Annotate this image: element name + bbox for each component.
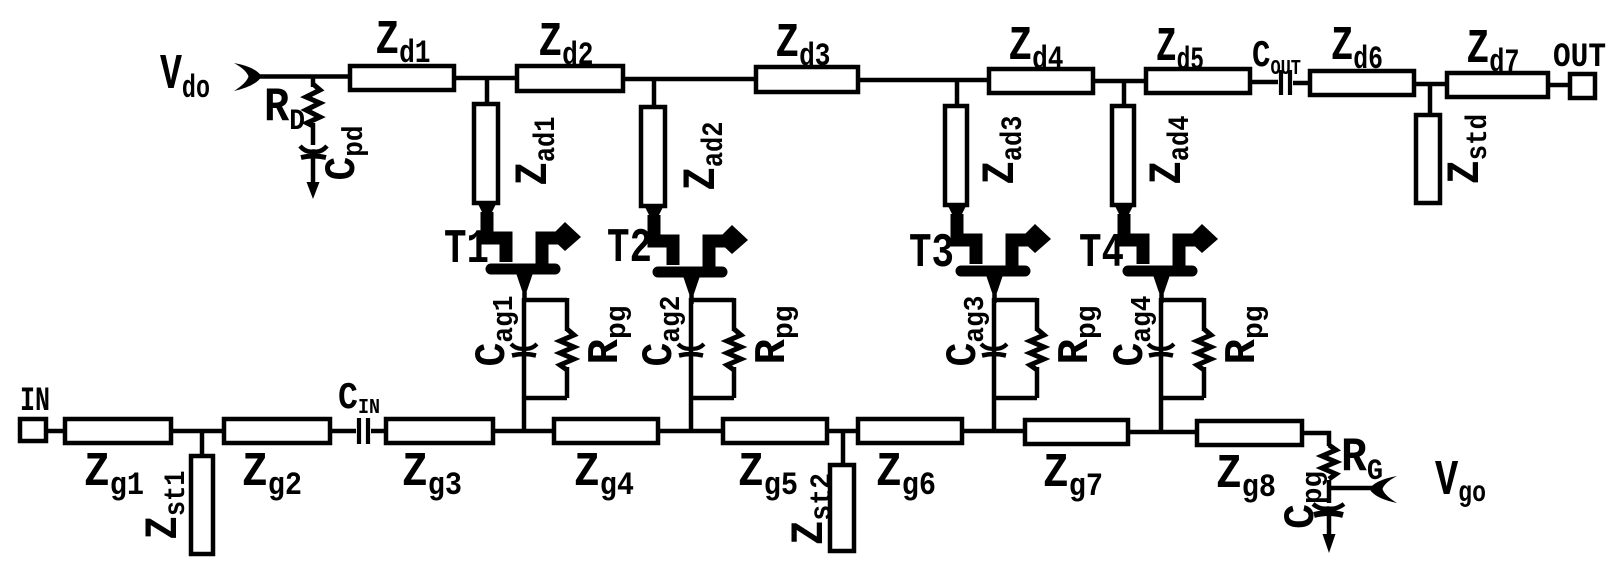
svg-text:T2: T2	[607, 222, 652, 276]
svg-text:Rpg: Rpg	[1051, 306, 1104, 365]
node Zstd junction	[1428, 84, 1433, 115]
svg-text:Cag2: Cag2	[635, 296, 688, 367]
wire Zg4 to Zg5	[658, 429, 723, 434]
transmission line Zd3	[756, 67, 858, 92]
capacitor Cin	[359, 418, 368, 444]
svg-text:T3: T3	[909, 227, 954, 281]
transmission line Zd6	[1310, 71, 1414, 95]
transistor T3	[948, 205, 1051, 303]
rc network 2	[678, 298, 741, 433]
wire Zg3 to Zg4	[493, 429, 554, 434]
resistor RG	[1322, 445, 1336, 479]
svg-text:Zg4: Zg4	[574, 446, 634, 504]
wire Zg1 to Zg2	[171, 429, 224, 434]
svg-text:Zg2: Zg2	[242, 446, 302, 504]
svg-text:Rpg: Rpg	[748, 306, 801, 365]
wire Zg5 to Zg6	[827, 429, 858, 434]
wire Zg8 to RG	[1302, 433, 1329, 446]
wire Zd7 to OUT	[1548, 83, 1570, 88]
svg-text:Cpg: Cpg	[1277, 471, 1330, 529]
svg-text:Zad4: Zad4	[1142, 116, 1198, 185]
wire Zd3 to Zd4	[858, 78, 989, 83]
stub Zad3	[945, 106, 967, 205]
svg-text:Zd4: Zd4	[1009, 20, 1064, 78]
svg-text:Zad2: Zad2	[676, 122, 732, 191]
stub Zst2	[830, 465, 854, 551]
svg-text:Vdo: Vdo	[160, 47, 210, 107]
svg-text:Zg7: Zg7	[1043, 447, 1103, 505]
svg-text:RG: RG	[1341, 431, 1383, 489]
svg-text:Zg5: Zg5	[738, 446, 798, 504]
wire IN to Zg1	[46, 429, 65, 434]
node Zst1 junction	[200, 431, 205, 456]
stub Zad4	[1112, 106, 1134, 205]
stub Zad2	[641, 107, 665, 206]
svg-text:Zst1: Zst1	[138, 471, 194, 540]
transmission line Zg5	[723, 419, 827, 443]
rc network 1	[511, 298, 574, 433]
svg-text:Zd3: Zd3	[776, 17, 831, 75]
svg-text:Rpg: Rpg	[581, 306, 634, 365]
svg-text:Zd7: Zd7	[1467, 23, 1520, 81]
capacitor Cpg	[1313, 504, 1344, 509]
svg-text:Zg8: Zg8	[1216, 448, 1276, 506]
svg-text:Vgo: Vgo	[1435, 453, 1486, 511]
rc network 4	[1148, 298, 1211, 433]
source arrow Vgo	[1370, 476, 1398, 503]
svg-text:IN: IN	[20, 383, 50, 421]
wire Zd2 to Zd3	[623, 77, 756, 82]
wire Cin to Zg3	[371, 429, 386, 434]
transmission line Zg4	[554, 419, 658, 443]
svg-text:CIN: CIN	[338, 377, 380, 420]
svg-text:T1: T1	[444, 223, 489, 277]
svg-text:Zd1: Zd1	[376, 14, 431, 72]
wire Zd4 to Zd5	[1093, 79, 1146, 84]
node T3 drain junction	[955, 80, 960, 106]
rc network 3	[981, 298, 1044, 433]
svg-text:Zad3: Zad3	[975, 116, 1031, 185]
transmission line Zd1	[350, 66, 454, 90]
terminal OUT	[1570, 74, 1595, 98]
ground arrow Cpg	[1327, 514, 1332, 536]
source arrow Vdo	[234, 63, 262, 91]
node Zst2 junction	[841, 431, 846, 465]
wire Cout to Zd6	[1293, 81, 1310, 86]
wire Zd5 to Cout	[1250, 80, 1278, 85]
svg-text:Rpg: Rpg	[1218, 306, 1271, 365]
transmission line Zg1	[65, 419, 171, 443]
node T2 drain junction	[652, 79, 657, 107]
svg-text:Cag3: Cag3	[939, 296, 992, 367]
wire Vdo to Zd1	[257, 74, 350, 79]
svg-text:Zad1: Zad1	[508, 117, 564, 186]
transmission line Zg8	[1197, 421, 1302, 445]
wire Zd1 to Zd2	[454, 76, 517, 81]
svg-text:Cag4: Cag4	[1106, 296, 1159, 367]
node RD junction	[311, 76, 316, 87]
ground arrow Cpd	[311, 157, 316, 184]
wire Zg6 to Zg7	[962, 429, 1025, 434]
svg-text:Zd6: Zd6	[1331, 20, 1383, 78]
stub Zst1	[191, 456, 213, 554]
wire Zd6 to Zd7	[1414, 82, 1447, 87]
resistor RD	[306, 84, 320, 126]
svg-text:Cpd: Cpd	[318, 126, 371, 181]
svg-text:RD: RD	[264, 81, 305, 139]
node T4 drain junction	[1122, 81, 1127, 106]
transmission line Zd4	[989, 69, 1093, 93]
svg-text:Zg1: Zg1	[84, 446, 144, 504]
wire Zg2 to Cin	[330, 429, 356, 434]
wire to Vgo arrow	[1329, 486, 1373, 491]
transmission line Zg3	[386, 419, 493, 443]
wire RD to Cpd	[311, 123, 316, 145]
transistor T2	[645, 206, 748, 304]
svg-text:COUT: COUT	[1252, 35, 1301, 81]
transistor T1	[478, 203, 581, 301]
svg-text:Cag1: Cag1	[468, 296, 521, 367]
capacitor Cpd	[300, 146, 327, 152]
svg-text:Zstd: Zstd	[1440, 114, 1496, 184]
svg-text:Zg3: Zg3	[402, 446, 462, 504]
wire RG to Cpg	[1327, 480, 1332, 503]
capacitor Cout	[1281, 70, 1290, 95]
transmission line Zg2	[224, 419, 330, 443]
terminal IN	[20, 419, 46, 441]
wire Zg7 to Zg8	[1128, 430, 1197, 435]
transmission line Zd2	[517, 66, 623, 91]
transmission line Zg7	[1025, 420, 1128, 444]
node T1 drain junction	[485, 78, 490, 104]
svg-text:Zg6: Zg6	[876, 446, 936, 504]
transmission line Zg6	[858, 419, 962, 443]
stub Zad1	[474, 104, 498, 203]
transmission line Zd7	[1447, 73, 1548, 97]
svg-text:Zd2: Zd2	[539, 16, 594, 74]
svg-text:Zd5: Zd5	[1156, 21, 1204, 79]
transistor T4	[1115, 205, 1218, 303]
transmission line Zd5	[1146, 69, 1250, 93]
svg-text:T4: T4	[1079, 227, 1124, 281]
stub Zstd	[1416, 115, 1440, 203]
svg-text:OUT: OUT	[1553, 39, 1606, 77]
